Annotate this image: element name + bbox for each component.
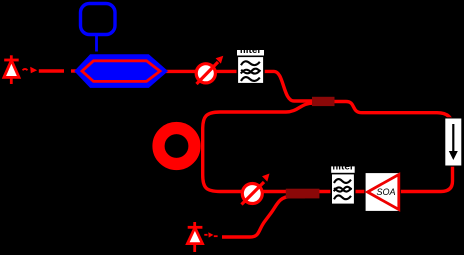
svg-text:SOA: SOA [376,187,395,197]
svg-text:filter: filter [240,45,262,56]
svg-text:filter: filter [332,161,354,172]
